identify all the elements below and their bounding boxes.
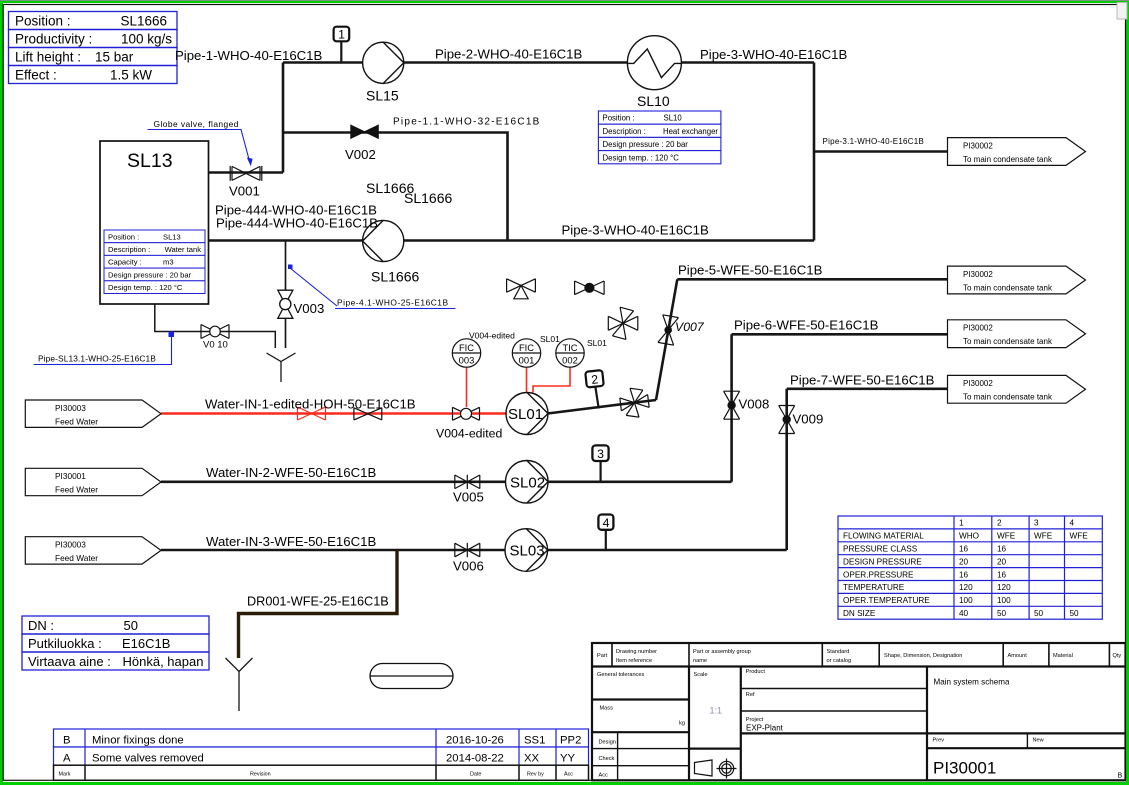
- svg-text:WFE: WFE: [1034, 532, 1053, 541]
- svg-text:16: 16: [959, 545, 969, 554]
- projection symbol trapezoid: [695, 760, 713, 776]
- svg-text:V005: V005: [453, 490, 484, 505]
- feed arrow PI30003 (Water-IN-1): [25, 400, 161, 427]
- wire Pipe-1 vertical riser x=283: [282, 63, 285, 173]
- svg-text:V004-edited: V004-edited: [469, 331, 515, 341]
- svg-text:FIC: FIC: [459, 342, 474, 353]
- svg-text:Mass: Mass: [600, 706, 614, 712]
- spare 3-way valve: [507, 279, 536, 299]
- valve (red) on Water-IN-1: [298, 407, 326, 420]
- svg-text:16: 16: [997, 545, 1007, 554]
- svg-text:Design temp. : 120 °C: Design temp. : 120 °C: [108, 283, 183, 292]
- svg-text:PI30002: PI30002: [963, 141, 993, 150]
- svg-text:Pipe-3-WHO-40-E16C1B: Pipe-3-WHO-40-E16C1B: [700, 47, 848, 62]
- svg-text:Item reference: Item reference: [616, 658, 652, 664]
- projection symbol target: [717, 759, 737, 779]
- spare 4-way valve: [608, 307, 638, 339]
- svg-text:Water tank: Water tank: [165, 245, 202, 254]
- svg-text:V004-edited: V004-edited: [436, 427, 502, 441]
- valve V010 (globe): [201, 325, 229, 339]
- DN pipe class table (bottom-left): [22, 616, 209, 670]
- svg-text:Drawing number: Drawing number: [616, 649, 657, 655]
- svg-text:Scale: Scale: [694, 672, 708, 678]
- svg-text:SL01: SL01: [540, 334, 560, 344]
- svg-text:Position :: Position :: [15, 14, 71, 29]
- svg-text:DESIGN PRESSURE: DESIGN PRESSURE: [843, 557, 922, 566]
- svg-text:Pipe-444-WHO-40-E16C1B: Pipe-444-WHO-40-E16C1B: [216, 216, 378, 231]
- spare ball valve: [575, 281, 605, 295]
- svg-text:OPER.TEMPERATURE: OPER.TEMPERATURE: [843, 596, 930, 605]
- title block left column horizontals: [592, 698, 689, 700]
- svg-text:YY: YY: [560, 752, 576, 764]
- svg-text:SL02: SL02: [510, 475, 545, 492]
- svg-text:V006: V006: [453, 559, 484, 574]
- valve V001 (globe, flanged): [230, 166, 262, 181]
- svg-text:PI30003: PI30003: [55, 403, 86, 413]
- svg-text:16: 16: [997, 570, 1007, 579]
- svg-text:50: 50: [124, 618, 138, 633]
- svg-text:WHO: WHO: [959, 532, 979, 541]
- svg-text:SL01: SL01: [587, 338, 607, 348]
- svg-text:50: 50: [1070, 609, 1080, 618]
- svg-text:SL10: SL10: [637, 93, 670, 109]
- node 1 stub: [340, 41, 342, 62]
- svg-text:Description :: Description :: [603, 127, 646, 136]
- prev/new row: [927, 733, 1126, 748]
- svg-text:Feed Water: Feed Water: [55, 485, 98, 495]
- svg-text:Material: Material: [1053, 653, 1073, 659]
- svg-text:Capacity :: Capacity :: [108, 258, 142, 267]
- svg-text:Standard: Standard: [827, 649, 850, 655]
- svg-text:Design pressure : 20 bar: Design pressure : 20 bar: [108, 270, 192, 279]
- svg-text:DN SIZE: DN SIZE: [843, 609, 876, 618]
- svg-text:kg: kg: [679, 721, 685, 727]
- heat exchanger SL10 property table: [598, 111, 721, 164]
- svg-text:General tolerances: General tolerances: [597, 672, 644, 678]
- wire instrument signal FIC003 to V004: [466, 367, 468, 407]
- svg-text:E16C1B: E16C1B: [122, 636, 170, 651]
- svg-text:Acc: Acc: [599, 773, 609, 779]
- wire Pipe-444 / Pipe-3 lower header y=240.5: [209, 239, 815, 242]
- svg-text:FIC: FIC: [519, 342, 534, 353]
- scrollbar tab top-right: [1117, 3, 1127, 20]
- svg-text:Minor fixings done: Minor fixings done: [92, 735, 184, 747]
- instrument TIC 002: [556, 339, 584, 367]
- svg-text:Revision: Revision: [250, 772, 271, 778]
- svg-text:PI30002: PI30002: [963, 324, 993, 333]
- node 4 stub: [605, 530, 607, 550]
- outlet arrow PI30002 (Pipe-7): [948, 375, 1086, 403]
- valve V003 (vertical globe): [278, 290, 293, 318]
- wire DR001 drain line (dark): [239, 550, 398, 658]
- svg-text:Position :: Position :: [108, 232, 139, 241]
- svg-text:Lift height :: Lift height :: [15, 50, 81, 65]
- svg-text:name: name: [693, 658, 707, 664]
- svg-text:Amount: Amount: [1008, 653, 1028, 659]
- svg-text:PI30003: PI30003: [55, 540, 86, 550]
- svg-text:m3: m3: [163, 258, 174, 267]
- wire tank bottom drain via V010: [155, 304, 275, 348]
- svg-text:DN :: DN :: [28, 618, 54, 633]
- scale cell divider: [689, 747, 741, 749]
- node 2: [585, 370, 604, 387]
- svg-text:To main condensate tank: To main condensate tank: [963, 283, 1053, 292]
- valve V002 (closed, filled): [351, 125, 379, 138]
- svg-text:1: 1: [338, 28, 345, 42]
- svg-text:2014-08-22: 2014-08-22: [446, 752, 504, 764]
- svg-text:PRESSURE CLASS: PRESSURE CLASS: [843, 545, 918, 554]
- svg-text:Feed Water: Feed Water: [55, 553, 98, 563]
- svg-text:Design pressure : 20 bar: Design pressure : 20 bar: [603, 140, 689, 149]
- wire Water-IN-3 line: [161, 549, 787, 552]
- svg-text:2: 2: [997, 519, 1002, 528]
- svg-text:16: 16: [959, 570, 969, 579]
- svg-text:V001: V001: [229, 184, 260, 199]
- svg-text:1:1: 1:1: [710, 706, 723, 716]
- svg-text:15 bar: 15 bar: [95, 50, 134, 65]
- svg-text:Qty: Qty: [1113, 653, 1122, 659]
- valve (black) on Water-IN-1: [354, 408, 382, 420]
- svg-text:4: 4: [1070, 519, 1075, 528]
- svg-text:SL03: SL03: [510, 543, 545, 560]
- svg-text:20: 20: [959, 557, 969, 566]
- svg-text:120: 120: [959, 583, 973, 592]
- wire Pipe-7 riser x=786.7: [785, 389, 788, 550]
- wire Water-IN-2 line: [161, 480, 732, 483]
- svg-text:Effect :: Effect :: [15, 68, 57, 83]
- svg-text:Design: Design: [599, 740, 616, 746]
- svg-text:EXP-Plant: EXP-Plant: [746, 724, 784, 733]
- node 1: [334, 27, 350, 42]
- svg-text:V002: V002: [345, 147, 376, 162]
- svg-text:Ref: Ref: [746, 692, 755, 698]
- svg-text:2016-10-26: 2016-10-26: [446, 735, 504, 747]
- title block small labels: [597, 649, 1123, 780]
- TITLE BLOCK: [592, 643, 1126, 780]
- svg-text:Mark: Mark: [59, 772, 71, 778]
- title block outer border: [592, 643, 1126, 780]
- svg-text:B: B: [63, 735, 71, 747]
- pump SL02: [506, 461, 549, 504]
- svg-text:SL13: SL13: [127, 150, 173, 172]
- annotation Pipe-SL13.1 (blue leader): [34, 332, 175, 365]
- svg-text:3: 3: [1034, 519, 1039, 528]
- svg-text:V007: V007: [675, 320, 705, 334]
- feed arrow PI30003 (Water-IN-3): [25, 537, 161, 564]
- wire Pipe-7 header: [787, 387, 948, 390]
- svg-text:4: 4: [603, 516, 610, 530]
- wire right-hand downcomer x=814: [813, 63, 816, 241]
- revision table: [54, 729, 589, 765]
- wire instrument signal FIC001 to SL01: [526, 367, 528, 394]
- wire tank top outlet to V001: [209, 171, 284, 174]
- wire Pipe-1.1 bypass through V002: [283, 133, 508, 241]
- svg-text:TIC: TIC: [562, 342, 577, 353]
- outlet arrow PI30002 (Pipe-3.1): [948, 138, 1086, 166]
- title block left column verticals: [688, 667, 690, 781]
- tank SL13 property table: [104, 230, 205, 294]
- svg-text:Pipe-SL13.1-WHO-25-E16C1B: Pipe-SL13.1-WHO-25-E16C1B: [38, 354, 156, 364]
- svg-text:100: 100: [997, 596, 1011, 605]
- svg-text:Heat exchanger: Heat exchanger: [663, 127, 718, 136]
- wire Pipe-3.1 branch to condensate arrow: [814, 150, 948, 153]
- svg-text:PP2: PP2: [560, 735, 581, 747]
- svg-text:PI30001: PI30001: [933, 759, 996, 778]
- svg-text:Prev: Prev: [933, 738, 945, 744]
- feed arrow PI30001 (Water-IN-2): [25, 468, 161, 495]
- pump SL15: [363, 42, 404, 83]
- svg-text:Productivity :: Productivity :: [15, 32, 92, 47]
- revision table header (black): [54, 765, 589, 780]
- svg-text:Project: Project: [746, 717, 764, 723]
- svg-text:Pipe-1.1-WHO-32-E16C1B: Pipe-1.1-WHO-32-E16C1B: [393, 117, 541, 128]
- svg-text:XX: XX: [524, 752, 540, 764]
- svg-text:Date: Date: [470, 772, 481, 778]
- drain funnel below DR001: [226, 658, 253, 711]
- svg-text:To main condensate tank: To main condensate tank: [963, 337, 1053, 346]
- wire Pipe-6 header: [732, 333, 948, 336]
- valve V004-edited (globe): [453, 407, 480, 420]
- valve V006: [455, 543, 480, 557]
- svg-text:40: 40: [959, 609, 969, 618]
- wire Pipe-1/2/3 top header y=62.5: [283, 61, 814, 64]
- svg-text:Check: Check: [599, 756, 615, 762]
- pump SL03: [505, 529, 548, 572]
- svg-text:1: 1: [959, 519, 964, 528]
- svg-text:Pipe-5-WFE-50-E16C1B: Pipe-5-WFE-50-E16C1B: [678, 263, 823, 278]
- svg-text:003: 003: [459, 354, 475, 365]
- wire Pipe-4.1 branch through V003: [285, 241, 287, 349]
- svg-text:SL01: SL01: [508, 406, 543, 423]
- svg-text:OPER.PRESSURE: OPER.PRESSURE: [843, 570, 914, 579]
- svg-text:Pipe-6-WFE-50-E16C1B: Pipe-6-WFE-50-E16C1B: [734, 318, 879, 333]
- wire instrument signal TIC002 to SL01: [533, 367, 570, 393]
- svg-text:001: 001: [519, 354, 535, 365]
- instrument FIC 001: [512, 339, 540, 367]
- annotation Globe valve flanged (blue leader): [148, 119, 253, 166]
- drain funnel below V003/V010: [267, 353, 296, 382]
- svg-text:Feed Water: Feed Water: [55, 416, 98, 426]
- svg-text:WFE: WFE: [1070, 532, 1089, 541]
- svg-text:Pipe-1-WHO-40-E16C1B: Pipe-1-WHO-40-E16C1B: [175, 48, 323, 63]
- svg-text:Part: Part: [597, 653, 608, 659]
- svg-text:3: 3: [597, 447, 604, 461]
- svg-text:To main condensate tank: To main condensate tank: [963, 155, 1053, 164]
- svg-text:Putkiluokka :: Putkiluokka :: [28, 636, 102, 651]
- svg-text:Description :: Description :: [108, 245, 150, 254]
- svg-text:SL1666: SL1666: [120, 14, 167, 29]
- svg-text:To main condensate tank: To main condensate tank: [963, 393, 1053, 402]
- pump SL1666 parameter table (top-left): [9, 12, 178, 84]
- svg-text:DR001-WFE-25-E16C1B: DR001-WFE-25-E16C1B: [247, 595, 389, 609]
- svg-text:V008: V008: [739, 397, 770, 412]
- svg-text:Shape, Dimension, Designation: Shape, Dimension, Designation: [884, 653, 962, 659]
- node 3: [592, 445, 608, 461]
- 4-way valve on SL01 outlet: [619, 386, 650, 419]
- svg-text:SL1666: SL1666: [404, 190, 452, 206]
- svg-text:Acc: Acc: [564, 772, 573, 778]
- svg-text:Virtaava aine :: Virtaava aine :: [28, 654, 111, 669]
- svg-text:SL15: SL15: [366, 88, 399, 104]
- svg-text:Globe valve, flanged: Globe valve, flanged: [154, 119, 239, 129]
- pump SL01: [506, 393, 548, 435]
- valve V009 (with dot): [779, 406, 795, 434]
- svg-text:PI30002: PI30002: [963, 270, 993, 279]
- svg-text:Pipe-3.1-WHO-40-E16C1B: Pipe-3.1-WHO-40-E16C1B: [823, 137, 925, 146]
- svg-text:A: A: [63, 752, 71, 764]
- valve V008 (with dot): [724, 391, 740, 419]
- title block header row: [592, 665, 1126, 667]
- svg-text:Rev by: Rev by: [527, 772, 544, 778]
- svg-text:SL13: SL13: [163, 232, 181, 241]
- outlet arrow PI30002 (Pipe-6): [948, 320, 1086, 348]
- wire Pipe-5 header: [677, 278, 947, 281]
- svg-text:120: 120: [997, 583, 1011, 592]
- svg-text:100: 100: [959, 596, 973, 605]
- svg-text:Design temp. : 120 °C: Design temp. : 120 °C: [603, 153, 680, 162]
- svg-text:V009: V009: [793, 412, 824, 427]
- instrument FIC 003: [452, 339, 480, 367]
- annotation Pipe-4.1 (blue leader): [288, 265, 456, 309]
- svg-text:Pipe-2-WHO-40-E16C1B: Pipe-2-WHO-40-E16C1B: [435, 47, 583, 62]
- node 2 stub: [595, 387, 598, 409]
- svg-text:1.5 kW: 1.5 kW: [110, 68, 152, 83]
- svg-text:SS1: SS1: [524, 735, 545, 747]
- svg-text:Position :: Position :: [603, 114, 635, 123]
- svg-text:Water-IN-3-WFE-50-E16C1B: Water-IN-3-WFE-50-E16C1B: [206, 534, 376, 549]
- svg-text:V003: V003: [294, 301, 325, 316]
- valve V005: [455, 475, 480, 489]
- svg-text:Part or assembly group: Part or assembly group: [693, 649, 751, 655]
- wire Water-IN-1 red feed line: [161, 412, 507, 415]
- svg-text:100 kg/s: 100 kg/s: [121, 32, 172, 47]
- svg-text:Pipe-7-WFE-50-E16C1B: Pipe-7-WFE-50-E16C1B: [790, 373, 935, 388]
- svg-text:Pipe-3-WHO-40-E16C1B: Pipe-3-WHO-40-E16C1B: [562, 223, 710, 238]
- heat exchanger SL10: [627, 36, 681, 90]
- flowing material table: [838, 516, 1102, 619]
- svg-text:SL1666: SL1666: [371, 269, 419, 285]
- svg-text:50: 50: [997, 609, 1007, 618]
- svg-text:Some valves removed: Some valves removed: [92, 752, 204, 764]
- wire Pipe-6 riser x=731.6: [730, 334, 733, 482]
- product field lines: [741, 689, 927, 712]
- svg-text:or catalog: or catalog: [827, 658, 852, 664]
- wire Pipe-5 riser diagonal: [656, 279, 677, 400]
- svg-text:V0 10: V0 10: [203, 340, 228, 351]
- drain capsule symbol: [370, 664, 453, 689]
- svg-text:Water-IN-1-edited-HOH-50-E16C1: Water-IN-1-edited-HOH-50-E16C1B: [205, 397, 416, 412]
- svg-text:New: New: [1033, 738, 1045, 744]
- wire SL01 outlet sloped: [548, 400, 657, 414]
- svg-text:TEMPERATURE: TEMPERATURE: [843, 583, 905, 592]
- tank SL13: [100, 141, 209, 304]
- svg-text:Hönkä, hapan: Hönkä, hapan: [123, 654, 204, 669]
- svg-text:Water-IN-2-WFE-50-E16C1B: Water-IN-2-WFE-50-E16C1B: [206, 465, 376, 480]
- pump SL1666: [363, 220, 404, 261]
- svg-text:PI30002: PI30002: [963, 379, 993, 388]
- svg-text:PI30001: PI30001: [55, 471, 86, 481]
- svg-text:002: 002: [562, 354, 578, 365]
- outlet arrow PI30002 (Pipe-5): [948, 266, 1086, 294]
- node 4: [598, 515, 613, 530]
- svg-text:20: 20: [997, 557, 1007, 566]
- svg-text:FLOWING MATERIAL: FLOWING MATERIAL: [843, 532, 924, 541]
- svg-text:SL10: SL10: [664, 114, 683, 123]
- svg-text:B: B: [1118, 773, 1123, 780]
- valve V007 (on diagonal, with dot): [658, 315, 679, 345]
- svg-text:50: 50: [1034, 609, 1044, 618]
- node 3 stub: [599, 461, 601, 482]
- svg-text:Product: Product: [746, 669, 766, 675]
- top gray edge: [0, 0, 1129, 1]
- svg-text:Pipe-4.1-WHO-25-E16C1B: Pipe-4.1-WHO-25-E16C1B: [337, 298, 449, 308]
- svg-text:WFE: WFE: [997, 532, 1016, 541]
- svg-text:Main system schema: Main system schema: [934, 678, 1011, 687]
